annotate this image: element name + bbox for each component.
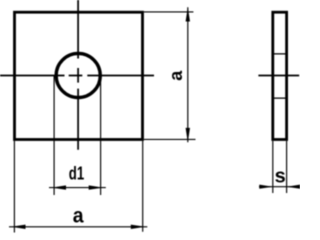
svg-text:d1: d1 <box>69 163 84 184</box>
svg-text:a: a <box>166 70 186 81</box>
svg-text:a: a <box>73 204 85 228</box>
svg-text:s: s <box>275 165 286 187</box>
